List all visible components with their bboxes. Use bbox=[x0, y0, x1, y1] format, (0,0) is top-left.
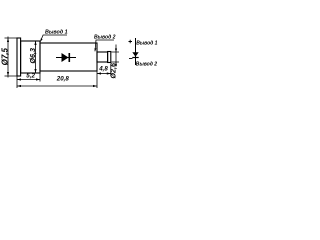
dimension 20.8 arrows bbox=[17, 85, 97, 87]
dimension 4.8 arrows bbox=[97, 72, 111, 74]
svg-text:20,8: 20,8 bbox=[56, 76, 70, 83]
dimension 5.2 extension line bbox=[39, 74, 41, 82]
svg-text:Вывод 1: Вывод 1 bbox=[136, 41, 157, 47]
diode symbol anode triangle bbox=[62, 53, 69, 62]
svg-text:Ø6,3: Ø6,3 bbox=[28, 48, 37, 64]
dimension D6.3 line bbox=[35, 41, 37, 73]
polarity plus sign bbox=[129, 40, 133, 43]
dimension 20.8 extension lines bbox=[17, 71, 97, 88]
flange bbox=[17, 38, 21, 76]
dimension D2.6 extension lines bbox=[112, 52, 120, 62]
dimension 5.2 arrows bbox=[17, 78, 40, 80]
svg-text:Ø2,6: Ø2,6 bbox=[109, 62, 118, 79]
svg-text:4,8: 4,8 bbox=[98, 65, 108, 72]
dimension 5.2 line bbox=[17, 79, 40, 81]
dimension 4.8 extension line bbox=[110, 64, 112, 77]
svg-text:5,2: 5,2 bbox=[26, 72, 35, 79]
dimension D7.5 line bbox=[7, 37, 9, 78]
diode symbol cathode bar bbox=[68, 53, 70, 62]
stud end cap bbox=[108, 52, 111, 63]
label Vyvod 2 leader arrow bbox=[95, 48, 97, 52]
polarity diagram wire bbox=[135, 38, 137, 65]
svg-text:Ø7,5: Ø7,5 bbox=[0, 48, 9, 66]
label Vyvod 1 leader arrow bbox=[40, 38, 42, 42]
diode symbol lead wire bbox=[56, 57, 76, 59]
stud terminal bbox=[97, 52, 108, 62]
label Vyvod 1 leader shelf bbox=[40, 35, 67, 41]
dimension 4.8 line bbox=[97, 73, 111, 75]
body section D6.3 bbox=[21, 41, 40, 73]
svg-text:Вывод 1: Вывод 1 bbox=[45, 29, 68, 35]
dimension D7.5 arrows bbox=[7, 38, 9, 76]
polarity minus sign bbox=[129, 58, 133, 60]
svg-text:Вывод 2: Вывод 2 bbox=[136, 62, 157, 68]
dimension D6.3 arrows bbox=[34, 41, 36, 73]
polarity diagram diode cathode bar bbox=[132, 57, 138, 59]
polarity diagram diode triangle bbox=[132, 52, 138, 57]
svg-text:Вывод 2: Вывод 2 bbox=[94, 35, 116, 41]
label Vyvod 2 leader shelf bbox=[95, 40, 114, 51]
main body bbox=[40, 43, 97, 71]
dimension D2.6 line bbox=[115, 45, 117, 67]
dimension D7.5 extension lines bbox=[5, 38, 18, 76]
dimension 20.8 line bbox=[17, 85, 97, 87]
dimension D2.6 arrows bbox=[115, 49, 117, 66]
